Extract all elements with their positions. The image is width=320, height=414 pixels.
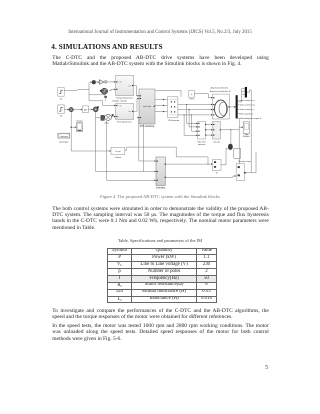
table — [107, 248, 217, 304]
wire subsystem out vertical — [255, 152, 257, 173]
svg-text:abc-dq: abc-dq — [213, 141, 219, 143]
wire sumB branch to product — [96, 117, 101, 119]
wire flux hysteresis to switching table — [134, 98, 140, 112]
wire bus tap into switching table in3 — [138, 117, 140, 161]
block VSI inverter — [168, 97, 180, 122]
terminator (dark oval) — [228, 144, 233, 150]
wire sumB down to bus — [95, 112, 97, 172]
wire demux to scope1 — [239, 119, 243, 164]
signal label stator current is_a — [238, 99, 256, 102]
sum junction speed error — [91, 80, 96, 84]
block measurement subsystem — [236, 161, 252, 180]
block powergui — [58, 133, 70, 144]
svg-text:Flux hysteresis: Flux hysteresis — [117, 121, 131, 124]
svg-text:Scope: Scope — [77, 120, 84, 122]
mux (black bar) — [238, 87, 247, 102]
relay block (torque band, dark) — [100, 88, 108, 94]
wire feedback box bottom — [89, 94, 105, 96]
svg-text:stator current is_c: stator current is_c — [240, 108, 255, 111]
journal header — [0, 30, 320, 35]
wire measurement to transform — [206, 124, 213, 136]
scope Scope — [76, 120, 83, 131]
figure caption — [0, 194, 320, 199]
svg-text:-K- rpm: -K- rpm — [115, 150, 121, 153]
svg-text:Te: Te — [216, 172, 218, 174]
gain PI (triangle) — [99, 80, 104, 85]
wire vertical feedback x89 — [88, 82, 90, 101]
wire machine to demux — [229, 106, 235, 108]
svg-text:Asynchronous Machine: Asynchronous Machine — [211, 87, 229, 90]
step source Step2 (flux reference) — [58, 105, 64, 118]
wire speed tap to scope — [70, 126, 76, 128]
svg-text:Const: Const — [189, 98, 195, 101]
svg-text:DTC switching: DTC switching — [140, 125, 155, 128]
wire switching table to inverter gates — [155, 99, 168, 113]
wire phase b — [178, 109, 213, 111]
wire display up — [221, 148, 228, 164]
signal label Rotor speed wm — [238, 113, 254, 116]
sum junction flux A — [69, 107, 73, 111]
block Torque hysteresis controller — [112, 75, 133, 102]
table caption — [0, 238, 320, 243]
block Asynchronous Machine — [210, 87, 231, 119]
wire speed feedback bus — [71, 150, 111, 152]
signal label stator current is_c — [238, 108, 255, 111]
wire sum to gain — [96, 81, 100, 83]
block voltage-current measurement — [197, 121, 206, 145]
svg-text:stator current is_a: stator current is_a — [240, 99, 256, 102]
block DTC switching table — [139, 89, 155, 128]
section heading — [51, 43, 162, 51]
defs shared gradients — [0, 0, 1, 1]
wire Tm to machine — [194, 94, 212, 99]
svg-text:Machine meas.: Machine meas. — [239, 161, 252, 163]
wire estimator out2 to subsystem — [165, 175, 236, 177]
block load torque constant Tm — [189, 90, 195, 101]
wire product to flux hysteresis in2 — [112, 116, 116, 118]
block PI controller — [82, 106, 88, 113]
wire vertical right of table — [142, 124, 144, 172]
svg-text:ref: ref — [60, 98, 63, 100]
wire transform to terminator — [220, 129, 239, 144]
wire relay to torque hysteresis in2 — [109, 89, 116, 91]
wire phase a — [178, 104, 213, 106]
paragraph 3 — [52, 308, 269, 320]
sum junction flux error (dark) — [93, 106, 99, 112]
wire phase taps to measurement block — [184, 105, 198, 137]
svg-text:w2rpm: w2rpm — [115, 156, 121, 159]
svg-text:relay: relay — [104, 122, 109, 125]
wire junction box right — [234, 148, 241, 158]
block speed conversion — [111, 147, 125, 159]
paragraph 2 — [52, 206, 269, 230]
wire estimator out1 — [165, 163, 212, 165]
paragraph 1 — [52, 55, 269, 67]
wire phase c — [178, 114, 213, 116]
figure 4 simulink diagram — [0, 68, 320, 190]
svg-text:VSI inverter: VSI inverter — [168, 119, 180, 122]
wire upper into flux hysteresis in1 — [89, 101, 116, 107]
svg-text:Electromagnetic torque Te: Electromagnetic torque Te — [240, 117, 262, 120]
wire product drop to estimator — [107, 121, 157, 181]
paragraph 4 — [52, 323, 269, 341]
wire conversion to estimator — [125, 147, 209, 165]
product block flux (circle-X, dark) — [101, 114, 114, 125]
wire mux output feedback — [245, 90, 256, 174]
step source Step1 (speed reference) — [58, 88, 64, 101]
svg-text:Scope1: Scope1 — [243, 136, 251, 138]
wire top dc bus — [155, 90, 181, 96]
svg-text:PI: PI — [84, 109, 87, 112]
svg-text:stator current is_b: stator current is_b — [240, 104, 255, 107]
page number — [265, 365, 268, 371]
signal label Electromagnetic torque Te — [238, 117, 262, 120]
svg-text:measure: measure — [198, 144, 206, 146]
block torque display — [213, 159, 222, 174]
block Flux hysteresis controller — [116, 103, 134, 123]
svg-text:powergui: powergui — [59, 141, 68, 144]
svg-text:estimator: estimator — [156, 187, 166, 190]
svg-text:in1: in1 — [119, 105, 121, 107]
wire sumA to PI box — [73, 109, 82, 111]
signal label stator current is_b — [238, 104, 255, 107]
wire flux feedback into estimator — [96, 171, 156, 173]
svg-text:Asynchronous Machine SI: Asynchronous Machine SI — [210, 90, 231, 93]
wire sumA down to bus — [70, 112, 72, 151]
wire Step1 to node x89 — [64, 89, 89, 92]
product junction small circle — [104, 81, 107, 84]
junction mark below relay — [104, 95, 107, 101]
svg-text:Rotor speed wm: Rotor speed wm — [240, 113, 254, 116]
demux (black bar) — [236, 95, 238, 118]
block abc-dq transform — [213, 121, 222, 143]
wire to torque hysteresis in1 — [107, 81, 116, 83]
scope Scope1 — [243, 122, 251, 138]
wire PI to sumB — [89, 109, 94, 111]
svg-text:Torque hysteresis: Torque hysteresis — [116, 97, 133, 100]
block flux and torque estimator — [156, 157, 166, 190]
svg-text:(Torque control): (Torque control) — [112, 100, 126, 103]
wire Step2 to sum — [64, 109, 69, 111]
svg-text:ref: ref — [60, 116, 63, 118]
wire torque hysteresis to switching table — [134, 86, 140, 97]
svg-text:in1: in1 — [119, 82, 121, 84]
